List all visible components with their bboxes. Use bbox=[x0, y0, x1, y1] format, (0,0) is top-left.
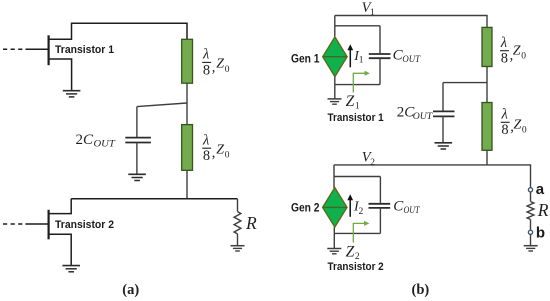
svg-text:Gen 1: Gen 1 bbox=[291, 52, 320, 66]
ground under generator 1 bbox=[328, 99, 342, 104]
label lambda/8, Z0 for TL1 bbox=[202, 47, 230, 79]
svg-text:Gen 2: Gen 2 bbox=[291, 201, 320, 215]
wire TL4 to V2 rail bbox=[486, 150, 488, 165]
svg-text:2: 2 bbox=[370, 158, 375, 168]
label lambda/8, Z0 for TL2 bbox=[202, 132, 230, 164]
wire V1 rail to generator 1 bbox=[334, 16, 336, 38]
loop 1 right wire with capacitor C_OUT bbox=[369, 26, 391, 85]
svg-text:8: 8 bbox=[501, 122, 508, 138]
wire generator 2 to ground bbox=[333, 227, 335, 248]
label Z1 bbox=[346, 93, 360, 111]
svg-text:Transistor 1: Transistor 1 bbox=[328, 112, 384, 124]
wire: drain rail to transmission line 1 bbox=[71, 23, 187, 39]
svg-text:1: 1 bbox=[359, 56, 364, 66]
V2 rail bbox=[334, 165, 531, 188]
label 2C_OUT (a) bbox=[76, 132, 116, 149]
svg-text:Transistor 2: Transistor 2 bbox=[328, 261, 384, 273]
svg-text:Z: Z bbox=[514, 117, 522, 132]
generator Gen 1 (diamond) bbox=[323, 37, 347, 77]
transmission line TL3 (lambda/8, Z0) bbox=[482, 27, 492, 66]
svg-text:λ: λ bbox=[202, 47, 209, 63]
transistor 2 bbox=[49, 199, 72, 266]
label lambda/8, Z0 for TL3 bbox=[500, 35, 526, 66]
svg-text:b: b bbox=[536, 225, 545, 242]
wire node a to resistor R (b) bbox=[530, 192, 532, 202]
node a bbox=[528, 188, 532, 192]
svg-text:C: C bbox=[83, 132, 94, 148]
transmission line TL4 (lambda/8, Z0) bbox=[482, 103, 492, 151]
svg-text:λ: λ bbox=[202, 132, 209, 148]
svg-text:1: 1 bbox=[355, 101, 360, 111]
transistor 1 gate wire (solid) bbox=[26, 48, 49, 50]
label I1 bbox=[353, 49, 364, 66]
wire TL3 to TL4 bbox=[486, 67, 488, 103]
ground under resistor R (a) bbox=[231, 246, 245, 251]
svg-text:a: a bbox=[536, 181, 545, 198]
svg-text:8: 8 bbox=[501, 50, 508, 66]
bottom rail (a) bbox=[71, 198, 237, 200]
wire TL2 to bottom rail bbox=[186, 170, 188, 199]
current arrow I1 bbox=[347, 44, 353, 67]
ground under transistor 1 bbox=[63, 91, 81, 97]
wire resistor to node b bbox=[530, 219, 532, 230]
svg-text:,: , bbox=[212, 59, 216, 75]
ground under capacitor 2C_OUT (a) bbox=[128, 174, 146, 180]
svg-text:OUT: OUT bbox=[402, 54, 421, 64]
svg-text:Z: Z bbox=[216, 142, 224, 157]
label V1 bbox=[362, 0, 375, 18]
transistor 1 gate wire (dashed) bbox=[3, 48, 27, 50]
wire rail to resistor R (a) bbox=[237, 199, 239, 212]
wire junction to 2C_OUT branch (b) bbox=[443, 82, 487, 84]
svg-text:8: 8 bbox=[203, 148, 210, 164]
transistor 2 gate wire (dashed) bbox=[3, 223, 27, 225]
svg-text:Z: Z bbox=[346, 244, 355, 261]
label C_OUT (loop 1) bbox=[393, 48, 421, 65]
label I2 bbox=[353, 200, 364, 217]
svg-text:0: 0 bbox=[225, 151, 230, 161]
loop 2 right wire with capacitor C_OUT bbox=[369, 177, 391, 234]
label C_OUT (loop 2) bbox=[393, 199, 420, 216]
impedance arrow Z1 (green) bbox=[353, 71, 370, 93]
loop 2 bottom wire bbox=[334, 232, 380, 234]
svg-text:0: 0 bbox=[521, 52, 526, 62]
svg-text:(b): (b) bbox=[412, 282, 430, 298]
svg-text:Z: Z bbox=[346, 93, 355, 110]
resistor R (b) bbox=[527, 202, 534, 220]
current arrow I2 bbox=[347, 194, 353, 217]
transmission line TL2 (lambda/8, Z0) bbox=[182, 125, 193, 171]
svg-text:OUT: OUT bbox=[413, 111, 433, 121]
svg-text:Transistor 2: Transistor 2 bbox=[55, 219, 114, 231]
wire TL1 to TL2 bbox=[186, 83, 188, 124]
label lambda/8, Z0 for TL4 bbox=[501, 106, 527, 138]
ground under 2C_OUT (b) bbox=[435, 143, 453, 149]
svg-text:2: 2 bbox=[397, 105, 405, 121]
transistor 2 gate wire (solid) bbox=[26, 223, 49, 225]
impedance arrow Z2 (green) bbox=[353, 221, 369, 243]
capacitor 2C_OUT (b) bbox=[433, 83, 455, 143]
svg-text:Z: Z bbox=[216, 57, 224, 72]
svg-text:Z: Z bbox=[513, 43, 521, 58]
node b bbox=[528, 230, 532, 234]
svg-text:,: , bbox=[212, 145, 216, 161]
svg-text:OUT: OUT bbox=[94, 138, 116, 148]
ground under transistor 2 bbox=[62, 266, 80, 272]
svg-text:2: 2 bbox=[76, 132, 84, 148]
ground under resistor R (b) bbox=[524, 246, 538, 251]
svg-text:(a): (a) bbox=[122, 282, 139, 298]
svg-text:2: 2 bbox=[359, 207, 364, 217]
wire generator 1 to ground bbox=[334, 77, 336, 99]
transistor 1 bbox=[49, 24, 72, 91]
loop 1 top wire bbox=[335, 25, 380, 27]
wire resistor to ground (a) bbox=[237, 234, 239, 246]
svg-text:0: 0 bbox=[522, 126, 527, 136]
svg-text:8: 8 bbox=[203, 62, 210, 78]
svg-text:Transistor 1: Transistor 1 bbox=[55, 44, 114, 56]
resistor R (a) bbox=[234, 212, 241, 234]
svg-text:λ: λ bbox=[500, 35, 507, 51]
loop 1 bottom wire bbox=[335, 84, 380, 86]
label V2 bbox=[362, 150, 375, 168]
capacitor 2C_OUT (a) bbox=[125, 107, 151, 175]
svg-text:OUT: OUT bbox=[404, 205, 421, 215]
transmission line TL1 (lambda/8, Z0) bbox=[182, 39, 193, 83]
svg-text:λ: λ bbox=[501, 106, 508, 122]
svg-text:1: 1 bbox=[370, 8, 375, 18]
svg-text:R: R bbox=[537, 200, 549, 220]
svg-text:0: 0 bbox=[225, 65, 230, 75]
ground under generator 2 bbox=[327, 249, 341, 254]
loop 2 top wire bbox=[334, 176, 380, 178]
label Z2 bbox=[346, 244, 360, 262]
label 2C_OUT (b) bbox=[397, 105, 433, 122]
svg-text:R: R bbox=[245, 213, 257, 233]
wire V2 rail to generator 2 bbox=[333, 165, 335, 188]
V1 rail bbox=[335, 16, 487, 28]
generator Gen 2 (diamond) bbox=[323, 188, 347, 228]
wire node b to ground bbox=[530, 234, 532, 245]
wire junction to capacitor branch bbox=[137, 103, 187, 107]
